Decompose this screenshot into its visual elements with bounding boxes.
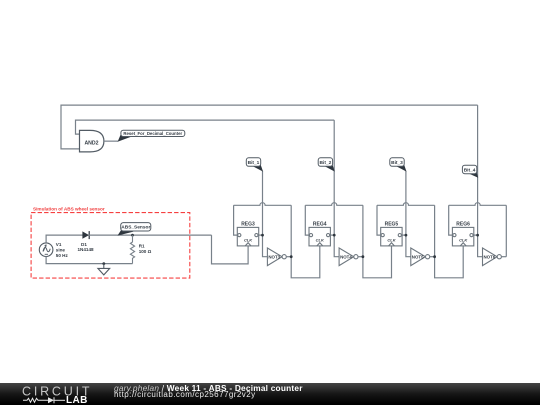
pin Q circle REG4	[327, 234, 330, 237]
flip-flop REG3 wiring	[234, 171, 320, 278]
wire to D input REG5	[377, 205, 382, 235]
node NOT3 output junction	[290, 255, 293, 258]
node junction ground	[102, 262, 105, 265]
node Q junction REG6	[476, 234, 479, 237]
flip-flop body REG3	[237, 227, 258, 246]
wire feedback D loop REG3 (hop over bit tap)	[234, 203, 292, 206]
wire AND2 output	[104, 140, 118, 142]
wire NOT6 output up to feedback	[505, 205, 507, 256]
wire feedback D loop REG4 (hop over bit tap)	[305, 203, 363, 206]
AND gate AND2	[80, 130, 104, 152]
inverter NOT5	[411, 248, 435, 266]
V1 value label	[56, 242, 69, 258]
Simulation of ABS wheel sensor annotation box	[31, 207, 190, 279]
wire V1 bottom rail	[46, 257, 132, 264]
inverter NOT6	[483, 248, 507, 266]
diode D1	[82, 231, 89, 239]
wire feedback D loop REG6 (hop over bit tap)	[449, 203, 507, 206]
svg-text:CLK: CLK	[459, 237, 468, 242]
svg-text:CLK: CLK	[316, 237, 325, 242]
wire Q output REG4	[330, 234, 335, 236]
wire NOT3 output down to REG4 CLK	[291, 205, 320, 277]
pin D circle REG5	[381, 234, 384, 237]
svg-text:1N4148: 1N4148	[78, 247, 95, 252]
flip-flop body REG6	[452, 227, 473, 246]
wire feedback D loop REG5 (hop over bit tap)	[377, 203, 435, 206]
pin CLK edge triangle REG4	[317, 243, 323, 246]
voltage source V1	[39, 243, 53, 257]
wire Q to NOT3 input	[263, 235, 268, 257]
flip-flop body REG4	[309, 227, 330, 246]
wire Q output REG6	[473, 234, 478, 236]
svg-text:50 Hz: 50 Hz	[56, 253, 69, 258]
flip-flop REG6 wiring	[449, 105, 507, 257]
svg-text:Bit_3: Bit_3	[391, 160, 403, 166]
pin CLK edge triangle REG5	[389, 243, 395, 246]
wire Q to NOT5 input	[406, 235, 411, 257]
pin CLK edge triangle REG3	[245, 243, 251, 246]
node Bit_1 flag	[246, 158, 263, 172]
svg-text:Bit_2: Bit_2	[320, 160, 332, 166]
wire Q output REG3	[258, 234, 263, 236]
svg-text:REG5: REG5	[385, 222, 399, 228]
wire Bit_1 tap	[262, 171, 264, 235]
node Q junction REG4	[333, 234, 336, 237]
pin Q circle REG5	[398, 234, 401, 237]
wire Bit_4 tap / loop vertical	[477, 105, 479, 235]
node Reset_For_Decimal_Counter flag	[118, 130, 185, 142]
svg-text:sine: sine	[56, 247, 66, 252]
wire Q output REG5	[401, 234, 406, 236]
svg-text:CLK: CLK	[387, 237, 396, 242]
D1 value label	[78, 242, 95, 252]
node NOT4 output junction	[362, 255, 365, 258]
svg-text:AND2: AND2	[84, 141, 98, 147]
node NOT5 output junction	[433, 255, 436, 258]
svg-text:100 Ω: 100 Ω	[139, 249, 152, 254]
svg-text:REG3: REG3	[241, 222, 255, 228]
pin CLK edge triangle REG6	[460, 243, 466, 246]
node Q junction REG3	[261, 234, 264, 237]
svg-text:LAB: LAB	[66, 395, 88, 405]
inverter NOT3	[267, 248, 291, 266]
wire to D input REG6	[449, 205, 454, 235]
wire to D input REG4	[305, 205, 310, 235]
wire outer-loop left vertical (Bit_4 to AND input B)	[61, 105, 478, 149]
svg-text:V1: V1	[56, 242, 62, 247]
svg-text:Bit_1: Bit_1	[248, 160, 260, 166]
svg-text:D1: D1	[81, 242, 87, 247]
ground	[98, 264, 110, 275]
svg-text:R1: R1	[139, 243, 145, 248]
inverter NOT4	[339, 248, 363, 266]
R1 value label	[139, 243, 152, 254]
pin D circle REG3	[238, 234, 241, 237]
wire Q to NOT6 input	[478, 235, 483, 257]
node Bit_2 flag	[318, 158, 335, 172]
flip-flop REG5 wiring	[377, 171, 463, 278]
node Bit_4 flag	[462, 165, 478, 178]
svg-text:REG4: REG4	[313, 222, 327, 228]
wire to D input REG3	[234, 205, 239, 235]
pin D circle REG4	[309, 234, 312, 237]
svg-text:Bit_4: Bit_4	[464, 167, 476, 173]
wire NOT5 output down to REG6 CLK	[435, 205, 464, 277]
svg-text:NOT6: NOT6	[484, 255, 496, 260]
wire NOT4 output down to REG5 CLK	[363, 205, 392, 277]
pin Q circle REG6	[470, 234, 473, 237]
svg-text:Simulation of ABS wheel sensor: Simulation of ABS wheel sensor	[33, 207, 105, 212]
wire Q to NOT4 input	[334, 235, 339, 257]
node Q junction REG5	[405, 234, 408, 237]
wire Bit_2 tap / loop vertical	[333, 120, 335, 235]
flip-flop REG4 wiring	[305, 120, 391, 278]
svg-text:CLK: CLK	[244, 237, 253, 242]
node Bit_3 flag	[390, 158, 407, 172]
wire D1 to sensor node and off to counter	[89, 234, 212, 236]
wire V1 top to node	[46, 235, 82, 243]
svg-text:ABS_Sensor: ABS_Sensor	[121, 225, 150, 231]
pin D circle REG6	[453, 234, 456, 237]
svg-text:NOT4: NOT4	[340, 255, 352, 260]
pin Q circle REG3	[255, 234, 258, 237]
wire Bit_3 tap	[405, 171, 407, 235]
svg-text:Reset_For_Decimal_Counter: Reset_For_Decimal_Counter	[123, 131, 182, 136]
flip-flop body REG5	[381, 227, 402, 246]
wire inner-loop (Bit_2 to AND input A)	[76, 120, 335, 134]
CircuitLab logo	[0, 383, 110, 405]
node ABS_Sensor flag	[118, 223, 151, 236]
svg-text:REG6: REG6	[456, 222, 470, 228]
resistor R1	[130, 235, 134, 264]
node junction R1 top	[131, 234, 134, 237]
svg-text:NOT3: NOT3	[268, 255, 280, 260]
wire sensor output to REG3 CLK	[212, 235, 249, 264]
svg-text:NOT5: NOT5	[412, 255, 424, 260]
